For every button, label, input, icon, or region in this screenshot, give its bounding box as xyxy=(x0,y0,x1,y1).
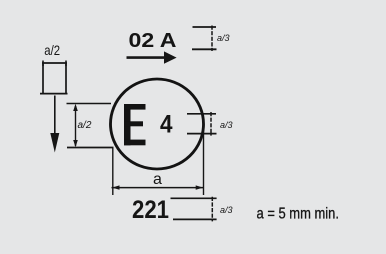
dimension a (below circle) xyxy=(112,120,204,196)
svg-text:a/3: a/3 xyxy=(220,120,233,130)
svg-text:a: a xyxy=(153,171,162,188)
a/3 bracket (right of circle, for numeral 4 height) xyxy=(187,112,217,136)
down arrow xyxy=(50,96,59,153)
svg-text:a = 5 mm min.: a = 5 mm min. xyxy=(257,205,340,222)
svg-text:a/3: a/3 xyxy=(217,33,230,43)
a/3 bracket (bottom, for 221 height) xyxy=(171,197,217,222)
circle of E-mark xyxy=(111,79,204,169)
svg-text:a/2: a/2 xyxy=(44,42,60,58)
right arrow under 02 A xyxy=(127,51,177,63)
letter E (drawn) xyxy=(124,104,146,145)
svg-text:02 A: 02 A xyxy=(129,30,177,52)
rectangle symbol under a/2 label xyxy=(40,61,68,94)
a/3 bracket (top right, for 02 A height) xyxy=(192,26,217,52)
svg-text:4: 4 xyxy=(160,111,173,139)
svg-text:221: 221 xyxy=(132,196,169,224)
svg-text:a/2: a/2 xyxy=(78,120,92,131)
a/2 vertical dimension (left of circle) xyxy=(67,104,114,148)
svg-text:a/3: a/3 xyxy=(220,205,233,215)
